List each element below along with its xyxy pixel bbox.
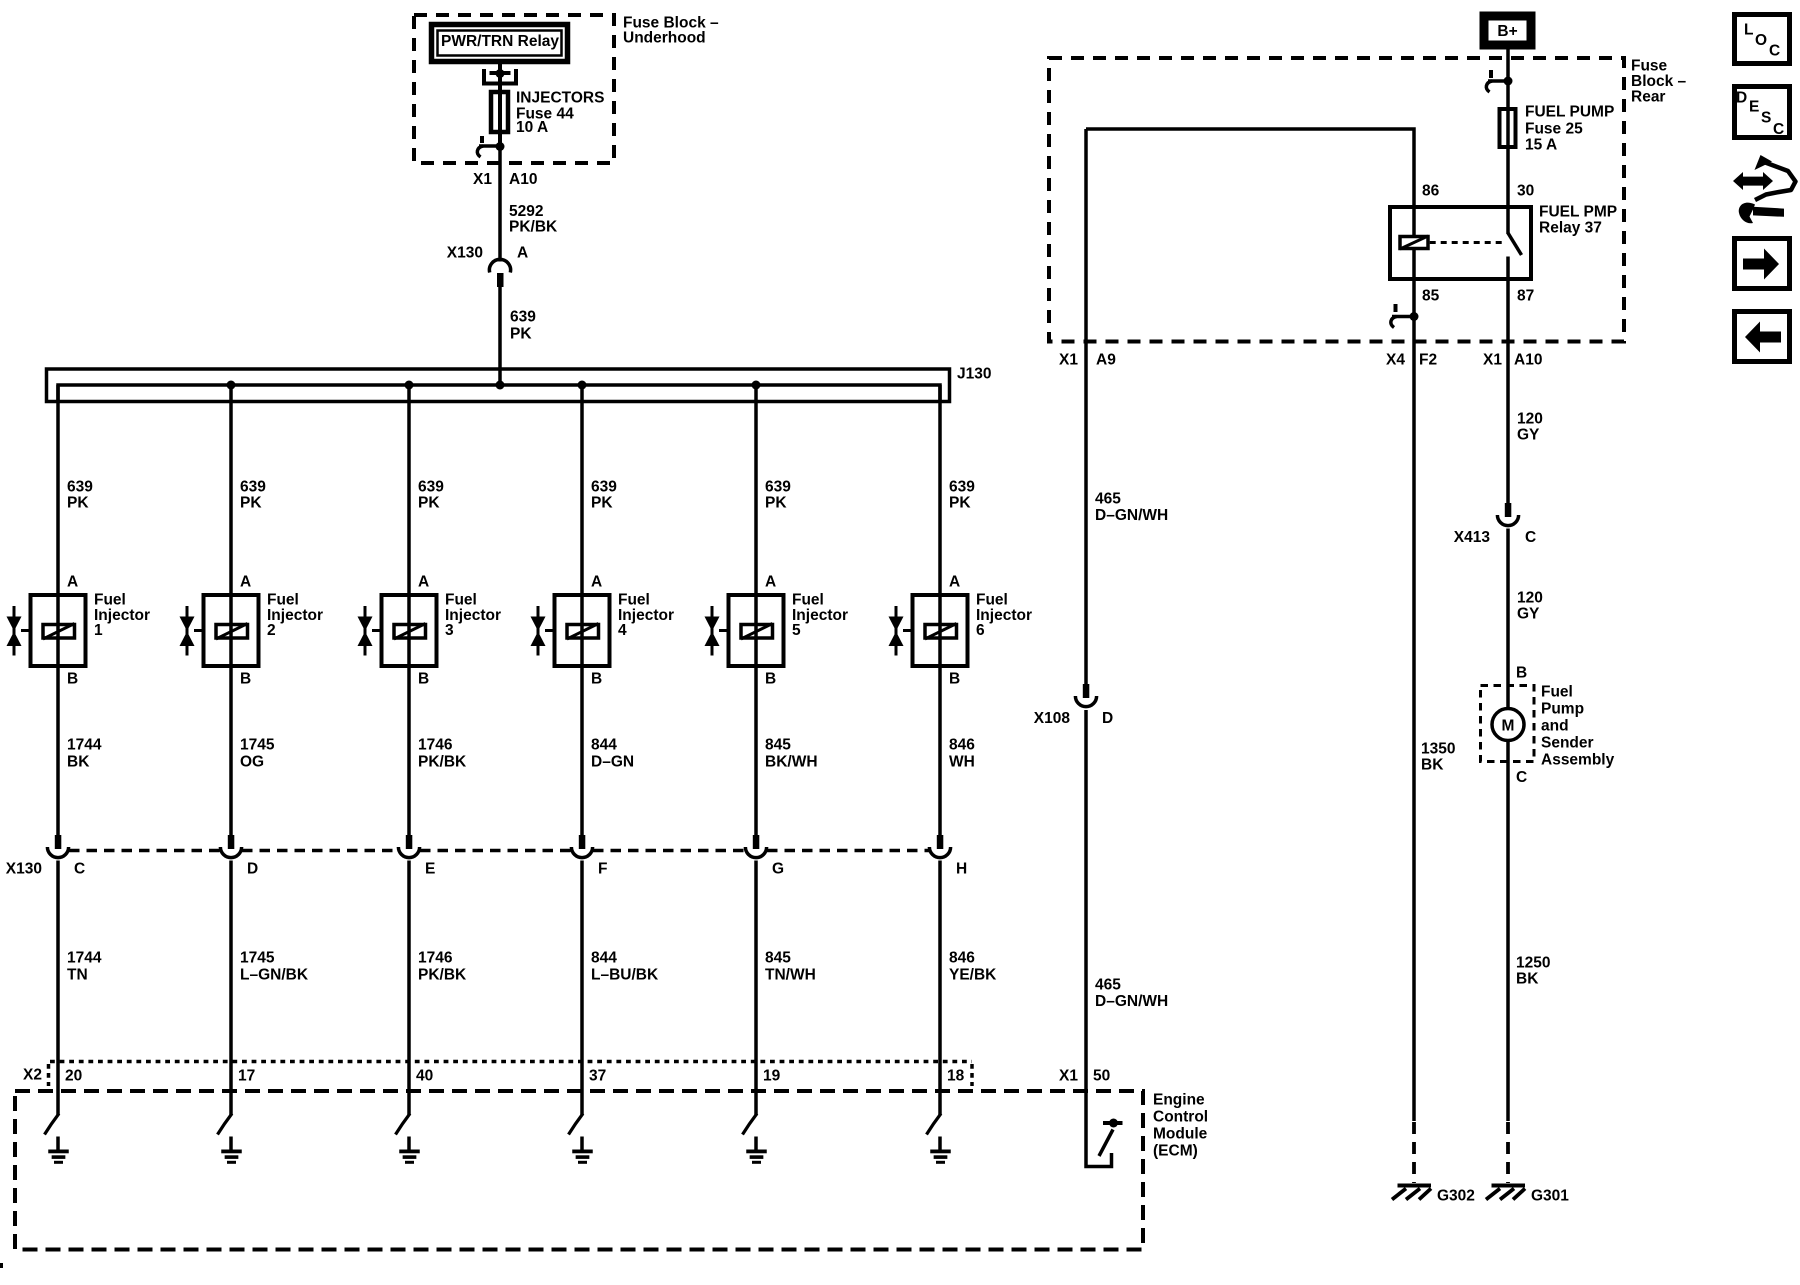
svg-text:465: 465 <box>1095 491 1121 508</box>
svg-text:C: C <box>1773 121 1784 138</box>
svg-text:A: A <box>949 574 960 591</box>
svg-text:B+: B+ <box>1497 23 1517 40</box>
connector X130 pin F <box>571 835 592 858</box>
wire label 845 <box>765 737 818 771</box>
wire label 639 PK (injector 2) <box>240 479 266 512</box>
ground symbol inside ECM (injector 6) <box>930 1137 951 1164</box>
label: FUEL PUMP Fuse 25 15 A <box>1525 104 1614 154</box>
ECM driver switch (injector 6) <box>927 1114 942 1135</box>
fuel injector 2 <box>180 595 259 666</box>
svg-text:D–GN/WH: D–GN/WH <box>1095 507 1168 524</box>
junction dot J130 @x=756 <box>752 381 761 390</box>
svg-text:845: 845 <box>765 737 791 754</box>
wire label 1744 <box>67 737 102 771</box>
svg-text:B: B <box>418 671 429 688</box>
svg-text:D–GN: D–GN <box>591 754 634 771</box>
svg-text:639: 639 <box>67 479 93 496</box>
svg-text:PK/BK: PK/BK <box>509 219 558 236</box>
svg-text:Control: Control <box>1153 1109 1208 1126</box>
svg-text:L–GN/BK: L–GN/BK <box>240 967 309 984</box>
label: Fuel Injector 6 <box>976 592 1032 639</box>
fuel injector 4 <box>531 595 610 666</box>
svg-text:639: 639 <box>418 479 444 496</box>
dashed lead to G301 <box>1506 1122 1510 1183</box>
svg-text:X1: X1 <box>473 171 492 188</box>
wire label 1250 BK <box>1516 955 1550 988</box>
svg-text:3: 3 <box>445 622 454 639</box>
svg-text:F2: F2 <box>1419 352 1437 369</box>
wire: X130 F to ECM pin 37 (844) <box>580 861 584 1116</box>
svg-text:Module: Module <box>1153 1126 1208 1143</box>
connector X413 pin C <box>1497 503 1518 526</box>
wire: 465 D-GN/WH lower <box>1084 710 1088 1091</box>
junction dot J130 @x=409 <box>405 381 414 390</box>
svg-text:Fuel: Fuel <box>1541 684 1573 701</box>
svg-text:846: 846 <box>949 950 975 967</box>
wire label 845 <box>765 950 816 984</box>
wire label 5292 PK/BK <box>509 203 558 236</box>
svg-text:A: A <box>765 574 776 591</box>
fuse F44 10A <box>498 73 502 147</box>
svg-text:X413: X413 <box>1454 529 1491 546</box>
dashed lead to G302 <box>1412 1122 1416 1183</box>
svg-text:10 A: 10 A <box>516 119 548 136</box>
svg-text:G: G <box>772 861 784 878</box>
svg-text:4: 4 <box>618 622 627 639</box>
svg-text:Block –: Block – <box>1631 73 1687 90</box>
terminal bracket at fuse 44 (U clip + T-bar) <box>484 69 516 84</box>
svg-text:85: 85 <box>1422 288 1440 305</box>
svg-text:50: 50 <box>1093 1068 1110 1085</box>
svg-text:C: C <box>1769 43 1780 60</box>
wire label 120 GY (upper) <box>1517 411 1543 444</box>
svg-text:G301: G301 <box>1531 1188 1569 1205</box>
ground symbol inside ECM (injector 2) <box>221 1137 242 1164</box>
svg-text:and: and <box>1541 718 1569 735</box>
svg-text:BK/WH: BK/WH <box>765 754 818 771</box>
wire: feed to relay coil 86 <box>1086 129 1414 206</box>
nav box LOC <box>1735 15 1790 64</box>
wire: injector 5 to X130 G (845) <box>754 666 758 836</box>
svg-text:G302: G302 <box>1437 1188 1475 1205</box>
svg-text:Underhood: Underhood <box>623 30 706 47</box>
svg-text:37: 37 <box>589 1068 606 1085</box>
svg-text:Relay 37: Relay 37 <box>1539 220 1602 237</box>
svg-text:PK: PK <box>240 495 262 512</box>
svg-text:639: 639 <box>510 309 536 326</box>
pin labels 86 / 30 <box>1422 183 1534 200</box>
fuse block rear (dashed box) <box>1049 58 1624 342</box>
connector row X2 (dotted) <box>49 1062 973 1087</box>
svg-text:639: 639 <box>591 479 617 496</box>
ECM driver switch (injector 4) <box>569 1114 584 1135</box>
ECM driver switch (injector 3) <box>396 1114 411 1135</box>
svg-text:A10: A10 <box>1514 352 1542 369</box>
wire: PWR/TRN relay to fuse 44 <box>498 62 502 92</box>
svg-text:A: A <box>67 574 78 591</box>
wire label 639 PK (injector 4) <box>591 479 617 512</box>
wire: injector 6 to X130 H (846) <box>938 666 942 836</box>
wire label 844 <box>591 950 659 984</box>
wire: X130 H to ECM pin 18 (846) <box>938 861 942 1116</box>
svg-text:PK: PK <box>510 326 532 343</box>
svg-text:INJECTORS: INJECTORS <box>516 90 604 107</box>
svg-text:TN/WH: TN/WH <box>765 967 816 984</box>
svg-text:1744: 1744 <box>67 737 102 754</box>
connector label X1 | A10 <box>473 171 537 188</box>
wire: injector 1 to X130 C (1744) <box>56 666 60 836</box>
svg-text:X1: X1 <box>1059 352 1078 369</box>
connector X130 pin C <box>47 835 68 858</box>
wire: X130 G to ECM pin 19 (845) <box>754 861 758 1116</box>
svg-text:18: 18 <box>947 1068 965 1085</box>
svg-text:X108: X108 <box>1034 710 1071 727</box>
label: Fuel Injector 5 <box>792 592 848 639</box>
svg-text:OG: OG <box>240 754 264 771</box>
wire label 120 GY (lower) <box>1517 590 1543 623</box>
svg-text:PK: PK <box>949 495 971 512</box>
svg-text:5: 5 <box>792 622 801 639</box>
wire label 465 D-GN/WH (upper) <box>1095 491 1168 525</box>
svg-text:FUEL PMP: FUEL PMP <box>1539 204 1617 221</box>
svg-text:1350: 1350 <box>1421 741 1455 758</box>
wire: pump C to G301 (1250 BK) <box>1506 741 1510 1122</box>
connector X130 pin A (inline) <box>489 259 510 287</box>
label X413 | C <box>1454 529 1536 546</box>
svg-text:(ECM): (ECM) <box>1153 1143 1198 1160</box>
svg-text:1745: 1745 <box>240 737 275 754</box>
svg-text:D: D <box>247 861 258 878</box>
svg-text:B: B <box>949 671 960 688</box>
svg-text:465: 465 <box>1095 977 1121 994</box>
wire: J130 to fuel injector 4 (639 PK) <box>580 385 584 595</box>
svg-text:17: 17 <box>238 1068 255 1085</box>
svg-text:845: 845 <box>765 950 791 967</box>
wire: X130 A to splice pack J130 <box>498 283 502 385</box>
nav icon: schematic navigation (arrows + wrench) <box>1733 155 1796 223</box>
svg-text:BK: BK <box>67 754 90 771</box>
wire: X130 D to ECM pin 17 (1745) <box>229 861 233 1116</box>
svg-text:Rear: Rear <box>1631 89 1665 106</box>
svg-text:40: 40 <box>416 1068 433 1085</box>
wire: relay 87 to X413 C (120 GY) <box>1506 279 1510 503</box>
svg-text:J130: J130 <box>957 366 991 383</box>
svg-text:D–GN/WH: D–GN/WH <box>1095 993 1168 1010</box>
svg-text:844: 844 <box>591 737 617 754</box>
svg-text:L: L <box>1744 22 1753 39</box>
svg-text:C: C <box>1516 769 1527 786</box>
pin labels 85 / 87 <box>1422 288 1534 305</box>
wire label 1745 <box>240 950 309 984</box>
svg-text:GY: GY <box>1517 427 1540 444</box>
svg-text:B: B <box>1516 665 1527 682</box>
bussed connection at relay 85 <box>1391 304 1419 328</box>
battery feed B+ <box>1484 16 1531 45</box>
svg-text:1: 1 <box>94 622 103 639</box>
fuel injector 6 <box>889 595 968 666</box>
svg-text:TN: TN <box>67 967 88 984</box>
svg-text:S: S <box>1761 110 1771 127</box>
svg-text:Assembly: Assembly <box>1541 752 1615 769</box>
svg-text:D: D <box>1736 90 1747 107</box>
svg-text:5292: 5292 <box>509 203 543 220</box>
ECM driver switch (injector 1) <box>45 1114 60 1135</box>
svg-text:A: A <box>591 574 602 591</box>
svg-text:C: C <box>74 861 85 878</box>
svg-text:2: 2 <box>267 622 276 639</box>
connector label X1 | 50 <box>1059 1068 1110 1085</box>
svg-text:846: 846 <box>949 737 975 754</box>
connector X130 pin H <box>929 835 950 858</box>
wire: injector 2 to X130 D (1745) <box>229 666 233 836</box>
wire label 1745 <box>240 737 275 771</box>
ECM driver switch (injector 2) <box>218 1114 233 1135</box>
svg-text:1745: 1745 <box>240 950 275 967</box>
label: INJECTORS Fuse 44 10 A <box>516 90 604 137</box>
wire: B+ to fuel pump relay 30 <box>1506 45 1510 206</box>
wire: injector 3 to X130 E (1746) <box>407 666 411 836</box>
svg-text:19: 19 <box>763 1068 781 1085</box>
svg-text:B: B <box>240 671 251 688</box>
wire label 844 <box>591 737 634 771</box>
svg-text:BK: BK <box>1421 757 1444 774</box>
ECM driver switch (injector 5) <box>743 1114 758 1135</box>
ECM box (dashed) <box>15 1091 1143 1250</box>
ground symbol inside ECM (injector 5) <box>746 1137 767 1164</box>
label: FUEL PMP Relay 37 <box>1539 204 1617 237</box>
svg-text:C: C <box>1525 529 1536 546</box>
fuse block underhood (dashed box) <box>414 15 614 163</box>
wire: J130 to fuel injector 1 (639 PK) <box>56 385 60 595</box>
wire: J130 to fuel injector 6 (639 PK) <box>938 385 942 595</box>
svg-text:X4: X4 <box>1386 352 1405 369</box>
svg-text:Fuse 25: Fuse 25 <box>1525 121 1583 138</box>
connector X130 pin E <box>398 835 419 858</box>
svg-text:A10: A10 <box>509 171 537 188</box>
wire: X130 E to ECM pin 40 (1746) <box>407 861 411 1116</box>
svg-text:Pump: Pump <box>1541 701 1584 718</box>
junction dot J130 @x=582 <box>578 381 587 390</box>
svg-text:A: A <box>517 245 528 262</box>
svg-text:87: 87 <box>1517 288 1534 305</box>
fuel pump and sender assembly <box>1481 686 1535 762</box>
relay FUEL PMP 37 <box>1390 207 1531 279</box>
wire label 639 PK (injector 1) <box>67 479 93 512</box>
svg-text:15 A: 15 A <box>1525 137 1557 154</box>
connector X130 pin G <box>745 835 766 858</box>
svg-text:E: E <box>425 861 435 878</box>
label: Fuel Injector 1 <box>94 592 150 639</box>
svg-text:1744: 1744 <box>67 950 102 967</box>
fuel injector 5 <box>705 595 784 666</box>
connector labels X1|A9 X4|F2 X1|A10 <box>1059 352 1542 369</box>
page corner mark <box>0 1263 3 1268</box>
svg-text:639: 639 <box>765 479 791 496</box>
svg-text:1250: 1250 <box>1516 955 1550 972</box>
svg-text:PK/BK: PK/BK <box>418 967 467 984</box>
splice pack J130 <box>47 369 950 403</box>
relay PWR/TRN (box with label) <box>432 25 568 62</box>
label: Fuel Injector 3 <box>445 592 501 639</box>
bussed connection at B+ feed <box>1486 70 1512 92</box>
svg-text:PK/BK: PK/BK <box>418 754 467 771</box>
svg-text:Sender: Sender <box>1541 735 1594 752</box>
wire label 1744 <box>67 950 102 984</box>
wire label 1746 <box>418 950 467 984</box>
fuel injector 1 <box>7 595 86 666</box>
svg-text:PWR/TRN Relay: PWR/TRN Relay <box>441 33 559 50</box>
svg-text:B: B <box>765 671 776 688</box>
svg-text:X130: X130 <box>447 245 483 262</box>
svg-text:YE/BK: YE/BK <box>949 967 997 984</box>
nav box arrow right <box>1735 239 1790 289</box>
svg-text:B: B <box>591 671 602 688</box>
wire label 846 <box>949 737 975 771</box>
svg-text:A: A <box>418 574 429 591</box>
label: Fuse Block - Underhood <box>623 15 719 47</box>
fuel injector 3 <box>358 595 437 666</box>
wire: X413 to fuel pump B (120 GY) <box>1506 529 1510 709</box>
wire: J130 to fuel injector 3 (639 PK) <box>407 385 411 595</box>
connector row X130 (dashed) <box>69 849 929 853</box>
connector X108 pin D <box>1075 684 1096 707</box>
svg-text:D: D <box>1102 710 1113 727</box>
svg-text:1746: 1746 <box>418 737 453 754</box>
svg-text:PK: PK <box>67 495 89 512</box>
svg-text:M: M <box>1502 717 1515 734</box>
svg-text:639: 639 <box>240 479 266 496</box>
bussed connection below fuse 44 <box>477 136 504 157</box>
svg-text:L–BU/BK: L–BU/BK <box>591 967 659 984</box>
svg-text:120: 120 <box>1517 411 1543 428</box>
label X108 | D <box>1034 710 1113 727</box>
svg-text:X2: X2 <box>23 1067 42 1084</box>
wire: 465 D-GN/WH (A9 to ECM 50) upper <box>1084 129 1088 698</box>
ground G302 <box>1392 1184 1431 1200</box>
svg-text:B: B <box>67 671 78 688</box>
junction dot J130 @x=231 <box>227 381 236 390</box>
wire label 639 PK (injector 3) <box>418 479 444 512</box>
svg-text:X130: X130 <box>6 861 42 878</box>
label: Fuel Injector 4 <box>618 592 674 639</box>
ground symbol inside ECM (injector 3) <box>399 1137 420 1164</box>
wire: J130 to fuel injector 5 (639 PK) <box>754 385 758 595</box>
wire label 465 D-GN/WH (lower) <box>1095 977 1168 1011</box>
wire label 639 PK <box>510 309 536 343</box>
wire: J130 to fuel injector 2 (639 PK) <box>229 385 233 595</box>
wire label 1350 BK <box>1421 741 1455 774</box>
svg-text:PK: PK <box>591 495 613 512</box>
svg-text:1746: 1746 <box>418 950 453 967</box>
label: Fuse Block - Rear <box>1631 58 1687 106</box>
svg-text:E: E <box>1749 99 1759 116</box>
wire label 639 PK (injector 6) <box>949 479 975 512</box>
ECM pin 50 driver (switch to internal T-bar) <box>1086 1091 1123 1167</box>
svg-text:6: 6 <box>976 622 985 639</box>
svg-text:A9: A9 <box>1096 352 1116 369</box>
svg-text:639: 639 <box>949 479 975 496</box>
label: Engine Control Module (ECM) <box>1153 1092 1208 1160</box>
svg-text:F: F <box>598 861 607 878</box>
wire: fuse 44 to connector X130 A (5292 PK/BK) <box>498 146 502 262</box>
label X130 | A <box>447 245 528 262</box>
nav box arrow left <box>1735 312 1790 362</box>
svg-text:844: 844 <box>591 950 617 967</box>
svg-text:X1: X1 <box>1059 1068 1078 1085</box>
wire label 1746 <box>418 737 467 771</box>
svg-text:BK: BK <box>1516 971 1539 988</box>
svg-text:Engine: Engine <box>1153 1092 1205 1109</box>
ground symbol inside ECM (injector 1) <box>48 1137 69 1164</box>
svg-text:H: H <box>956 861 967 878</box>
svg-text:PK: PK <box>418 495 440 512</box>
fuse F25 15A <box>1500 109 1516 147</box>
wire label 639 PK (injector 5) <box>765 479 791 512</box>
svg-text:FUEL PUMP: FUEL PUMP <box>1525 104 1614 121</box>
wire label 846 <box>949 950 997 984</box>
label: Fuel Injector 2 <box>267 592 323 639</box>
svg-text:Fuse: Fuse <box>1631 58 1668 75</box>
connector X130 pin D <box>220 835 241 858</box>
svg-text:WH: WH <box>949 754 975 771</box>
svg-text:PK: PK <box>765 495 787 512</box>
svg-text:120: 120 <box>1517 590 1543 607</box>
junction dot J130 @x=500 <box>496 381 505 390</box>
nav box DESC <box>1735 87 1790 139</box>
svg-text:30: 30 <box>1517 183 1534 200</box>
svg-text:GY: GY <box>1517 606 1540 623</box>
label: Fuel Pump and Sender Assembly <box>1541 684 1615 769</box>
svg-text:86: 86 <box>1422 183 1440 200</box>
svg-text:A: A <box>240 574 251 591</box>
ground G301 <box>1486 1184 1525 1200</box>
wire: relay 85 to G302 (1350 BK) <box>1412 279 1416 1121</box>
svg-text:O: O <box>1755 32 1767 49</box>
ground symbol inside ECM (injector 4) <box>572 1137 593 1164</box>
svg-text:X1: X1 <box>1483 352 1502 369</box>
wire: injector 4 to X130 F (844) <box>580 666 584 836</box>
svg-text:20: 20 <box>65 1068 82 1085</box>
wire: X130 C to ECM pin 20 (1744) <box>56 861 60 1116</box>
